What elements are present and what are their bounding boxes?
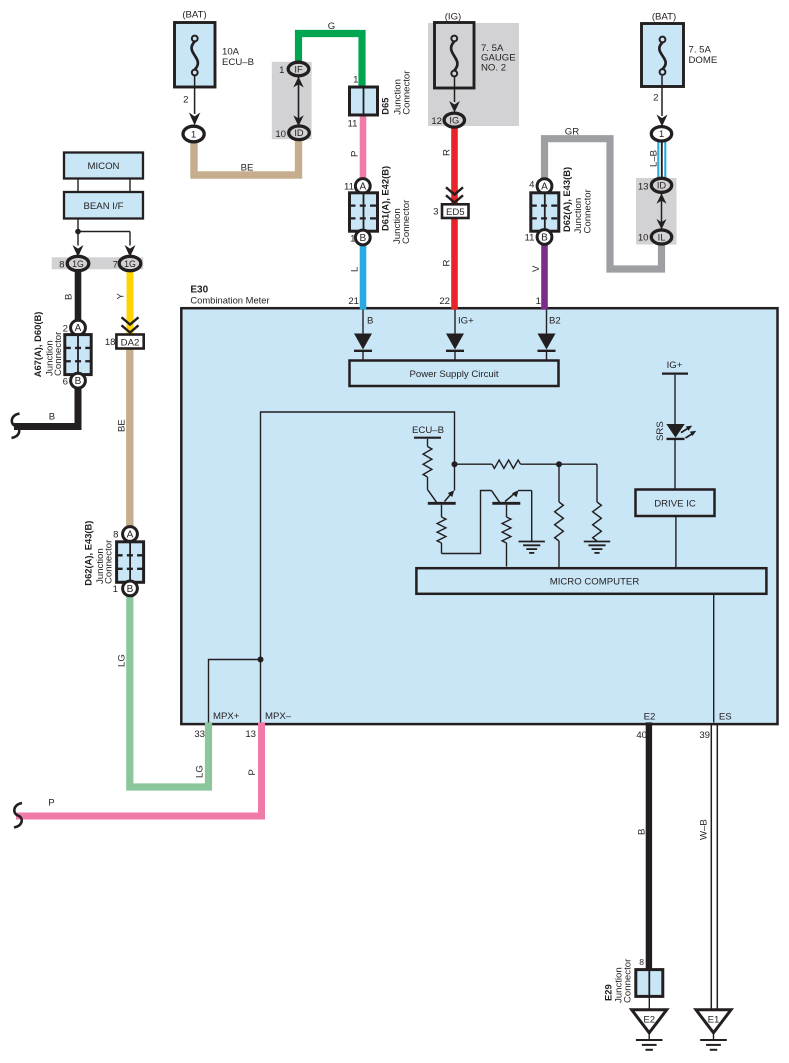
svg-text:DA2: DA2 (121, 337, 140, 348)
svg-text:10: 10 (275, 129, 286, 140)
shaded relay block box around IG fuse (428, 23, 519, 126)
svg-text:B: B (75, 376, 82, 387)
svg-text:4: 4 (529, 180, 535, 191)
wire BE fuse ECU-B to ID (194, 140, 299, 176)
svg-text:8: 8 (59, 259, 64, 270)
svg-text:18: 18 (105, 337, 116, 348)
wires MICON to BEAN (77, 179, 79, 193)
svg-text:1: 1 (353, 75, 358, 86)
arrow to 1G pin 7 (125, 245, 136, 257)
resistor R3 below Q2 (506, 505, 508, 517)
wire MPX+ inner (209, 660, 261, 723)
ground below R6 (584, 541, 610, 543)
resistor R2 below Q1 (441, 505, 443, 517)
chevron break on wire Y (122, 317, 139, 324)
svg-text:BE: BE (241, 163, 254, 174)
svg-text:13: 13 (245, 729, 256, 740)
wire B black 1G to A67 (75, 271, 82, 322)
svg-text:L–B: L–B (649, 150, 660, 167)
svg-text:ID: ID (657, 181, 667, 191)
svg-text:IL: IL (658, 232, 666, 242)
shaded instrument panel band 1G (52, 257, 144, 269)
svg-text:(IG): (IG) (445, 12, 462, 23)
svg-text:A67(A), D60(B): A67(A), D60(B) (32, 312, 43, 378)
svg-text:MICON: MICON (88, 161, 120, 172)
wire B black A67-B to break (14, 387, 78, 427)
svg-text:GR: GR (565, 127, 579, 138)
svg-text:1: 1 (659, 129, 664, 140)
svg-text:Connector: Connector (623, 958, 634, 1003)
junction dot node2 (556, 461, 562, 467)
svg-text:BE: BE (117, 419, 128, 432)
shaded junction block box ID/IL (636, 178, 677, 245)
wire L-B dome to ID (657, 141, 659, 180)
svg-text:E2: E2 (643, 1014, 655, 1025)
connector circle 1 below DOME fuse (651, 127, 671, 141)
connector circle 1 below ECU-B fuse (183, 126, 204, 142)
svg-text:1: 1 (279, 65, 284, 76)
svg-text:B: B (64, 294, 75, 300)
svg-text:MPX+: MPX+ (213, 711, 240, 722)
svg-text:ED5: ED5 (446, 207, 465, 218)
box BEAN I/F (64, 192, 143, 219)
svg-text:Connector: Connector (583, 188, 594, 233)
ground below Q2 (519, 541, 545, 543)
svg-text:40: 40 (636, 730, 647, 741)
svg-text:Connector: Connector (401, 70, 412, 115)
svg-text:13: 13 (638, 181, 649, 192)
svg-text:1: 1 (191, 129, 196, 140)
svg-text:33: 33 (194, 729, 205, 740)
svg-text:Combination Meter: Combination Meter (190, 295, 269, 306)
ECU E30 Combination Meter box (181, 308, 777, 724)
junction dot BEAN wire (75, 229, 81, 235)
wire BE DA2 to D62-left (126, 349, 133, 528)
wire B black pin40 to E29 (646, 722, 652, 985)
svg-text:A: A (359, 181, 366, 192)
svg-text:R: R (442, 149, 453, 156)
svg-text:ES: ES (719, 712, 732, 723)
svg-text:8: 8 (639, 957, 644, 967)
svg-text:39: 39 (699, 730, 710, 741)
svg-text:1: 1 (536, 296, 541, 307)
svg-text:LG: LG (195, 765, 206, 778)
wire LG green loop (130, 596, 209, 788)
DRIVE IC box (636, 490, 715, 517)
svg-text:3: 3 (433, 206, 438, 217)
svg-text:IG: IG (449, 115, 459, 125)
svg-text:E29: E29 (603, 984, 614, 1001)
svg-text:B: B (127, 584, 134, 595)
svg-text:B: B (637, 829, 648, 835)
svg-text:22: 22 (439, 296, 450, 307)
svg-text:1: 1 (113, 584, 118, 595)
arrow to 1G pin 8 (73, 245, 84, 257)
svg-text:8: 8 (113, 529, 118, 540)
junction dot collector node (452, 461, 458, 467)
svg-text:MPX–: MPX– (265, 711, 292, 722)
svg-text:IG+: IG+ (458, 316, 474, 327)
transistor Q2 (492, 491, 500, 503)
wire R red IG to pin 22 (451, 126, 458, 310)
pin of IG fuse (454, 77, 456, 103)
break squiggle left black wire (12, 414, 20, 439)
wire P pink pin13 to break (16, 722, 262, 816)
svg-text:11: 11 (348, 119, 358, 130)
wire Q1 to Q2 base (442, 491, 492, 554)
diode at pin 22 (454, 310, 456, 335)
svg-text:(BAT): (BAT) (652, 12, 676, 23)
svg-text:(BAT): (BAT) (182, 10, 206, 21)
junction dot MPX (258, 657, 264, 663)
svg-text:P: P (48, 798, 54, 809)
wire Y yellow 1G to DA2 (127, 271, 134, 335)
svg-text:ID: ID (294, 128, 304, 138)
svg-text:11: 11 (525, 233, 535, 244)
svg-text:D61(A), E42(B): D61(A), E42(B) (380, 166, 391, 231)
wire L blue D61 to pin 21 (360, 244, 367, 310)
svg-text:D62(A), E43(B): D62(A), E43(B) (561, 167, 572, 232)
svg-text:R: R (442, 260, 453, 267)
wire E29 to ground E2 (648, 996, 650, 1010)
svg-text:11: 11 (344, 181, 354, 192)
svg-text:10A: 10A (222, 47, 240, 58)
box MICON (64, 153, 143, 179)
svg-text:W–B: W–B (699, 819, 710, 840)
transistor Q1 (428, 490, 437, 503)
wire DRIVE IC to MICRO COMPUTER (675, 516, 677, 568)
svg-text:G: G (328, 21, 335, 32)
svg-text:D62(A), E43(B): D62(A), E43(B) (82, 521, 93, 586)
svg-text:1G: 1G (72, 259, 84, 269)
svg-text:B: B (367, 316, 373, 327)
resistor R1 collector (427, 439, 429, 447)
svg-text:P: P (247, 769, 258, 775)
junction arrows IF-ID (298, 77, 300, 126)
svg-text:D65: D65 (380, 98, 391, 115)
ground E1 (696, 1010, 731, 1033)
svg-text:10: 10 (638, 233, 649, 244)
svg-text:IF: IF (294, 64, 303, 74)
wire V purple D62 to pin 1 (541, 244, 548, 310)
svg-text:B: B (49, 411, 55, 422)
break squiggle pink wire (14, 803, 22, 828)
svg-text:7. 5A: 7. 5A (689, 45, 712, 56)
wire LED to DRIVE IC (674, 440, 676, 490)
svg-text:B: B (541, 232, 548, 243)
wire BEAN to 1G pins (77, 219, 79, 246)
junction arrows ID-IL (661, 193, 663, 230)
svg-text:MICRO COMPUTER: MICRO COMPUTER (550, 577, 640, 588)
chevron break on wire R (446, 187, 463, 194)
svg-text:V: V (531, 265, 542, 272)
wire MPX- inner (261, 412, 455, 723)
diode at pin 1 (546, 310, 548, 335)
svg-text:7: 7 (113, 259, 118, 270)
ground E2 (632, 1010, 667, 1033)
LED SRS (666, 424, 684, 438)
svg-text:B: B (359, 233, 366, 244)
svg-text:1: 1 (350, 233, 355, 244)
svg-text:DRIVE IC: DRIVE IC (654, 499, 696, 510)
wire G green IF to D65 (299, 34, 363, 88)
svg-text:LG: LG (117, 654, 128, 667)
svg-text:Y: Y (116, 293, 127, 300)
wire IG+ to LED (674, 375, 676, 424)
svg-text:L: L (350, 266, 361, 272)
svg-text:Connector: Connector (53, 331, 64, 376)
svg-text:21: 21 (348, 296, 359, 307)
resistor R4 horizontal (455, 463, 493, 465)
svg-text:NO. 2: NO. 2 (481, 62, 506, 73)
svg-text:1G: 1G (124, 259, 136, 269)
svg-text:12: 12 (431, 116, 442, 127)
svg-text:IG+: IG+ (667, 360, 683, 371)
Power Supply Circuit box (350, 361, 559, 387)
wire ES inner (713, 594, 715, 723)
svg-text:2: 2 (653, 93, 658, 104)
svg-text:Connector: Connector (401, 199, 412, 244)
svg-text:E2: E2 (644, 712, 656, 723)
svg-text:P: P (350, 151, 361, 157)
svg-text:2: 2 (183, 95, 188, 106)
svg-text:ECU–B: ECU–B (412, 425, 444, 436)
svg-text:E1: E1 (708, 1014, 720, 1025)
shaded junction block box IF/ID (272, 62, 312, 140)
MICRO COMPUTER box (416, 568, 766, 594)
diode at pin 21 (362, 310, 364, 335)
svg-text:A: A (75, 323, 82, 334)
wire W-B pin39 to E1 (710, 724, 712, 1010)
wire GR gray loop (545, 139, 662, 269)
svg-text:6: 6 (63, 376, 68, 387)
svg-text:Power Supply Circuit: Power Supply Circuit (409, 369, 498, 380)
svg-text:Connector: Connector (104, 539, 115, 584)
svg-text:B2: B2 (549, 316, 561, 327)
svg-text:DOME: DOME (689, 55, 718, 66)
svg-text:ECU–B: ECU–B (222, 57, 254, 68)
resistor R6 to ground (596, 464, 598, 502)
svg-text:A: A (541, 182, 548, 193)
svg-text:A: A (127, 529, 134, 540)
svg-text:SRS: SRS (655, 421, 666, 441)
wire P pink D65 to D61 (360, 114, 367, 180)
svg-text:BEAN I/F: BEAN I/F (84, 201, 124, 212)
resistor R5 to micro computer (558, 464, 560, 502)
